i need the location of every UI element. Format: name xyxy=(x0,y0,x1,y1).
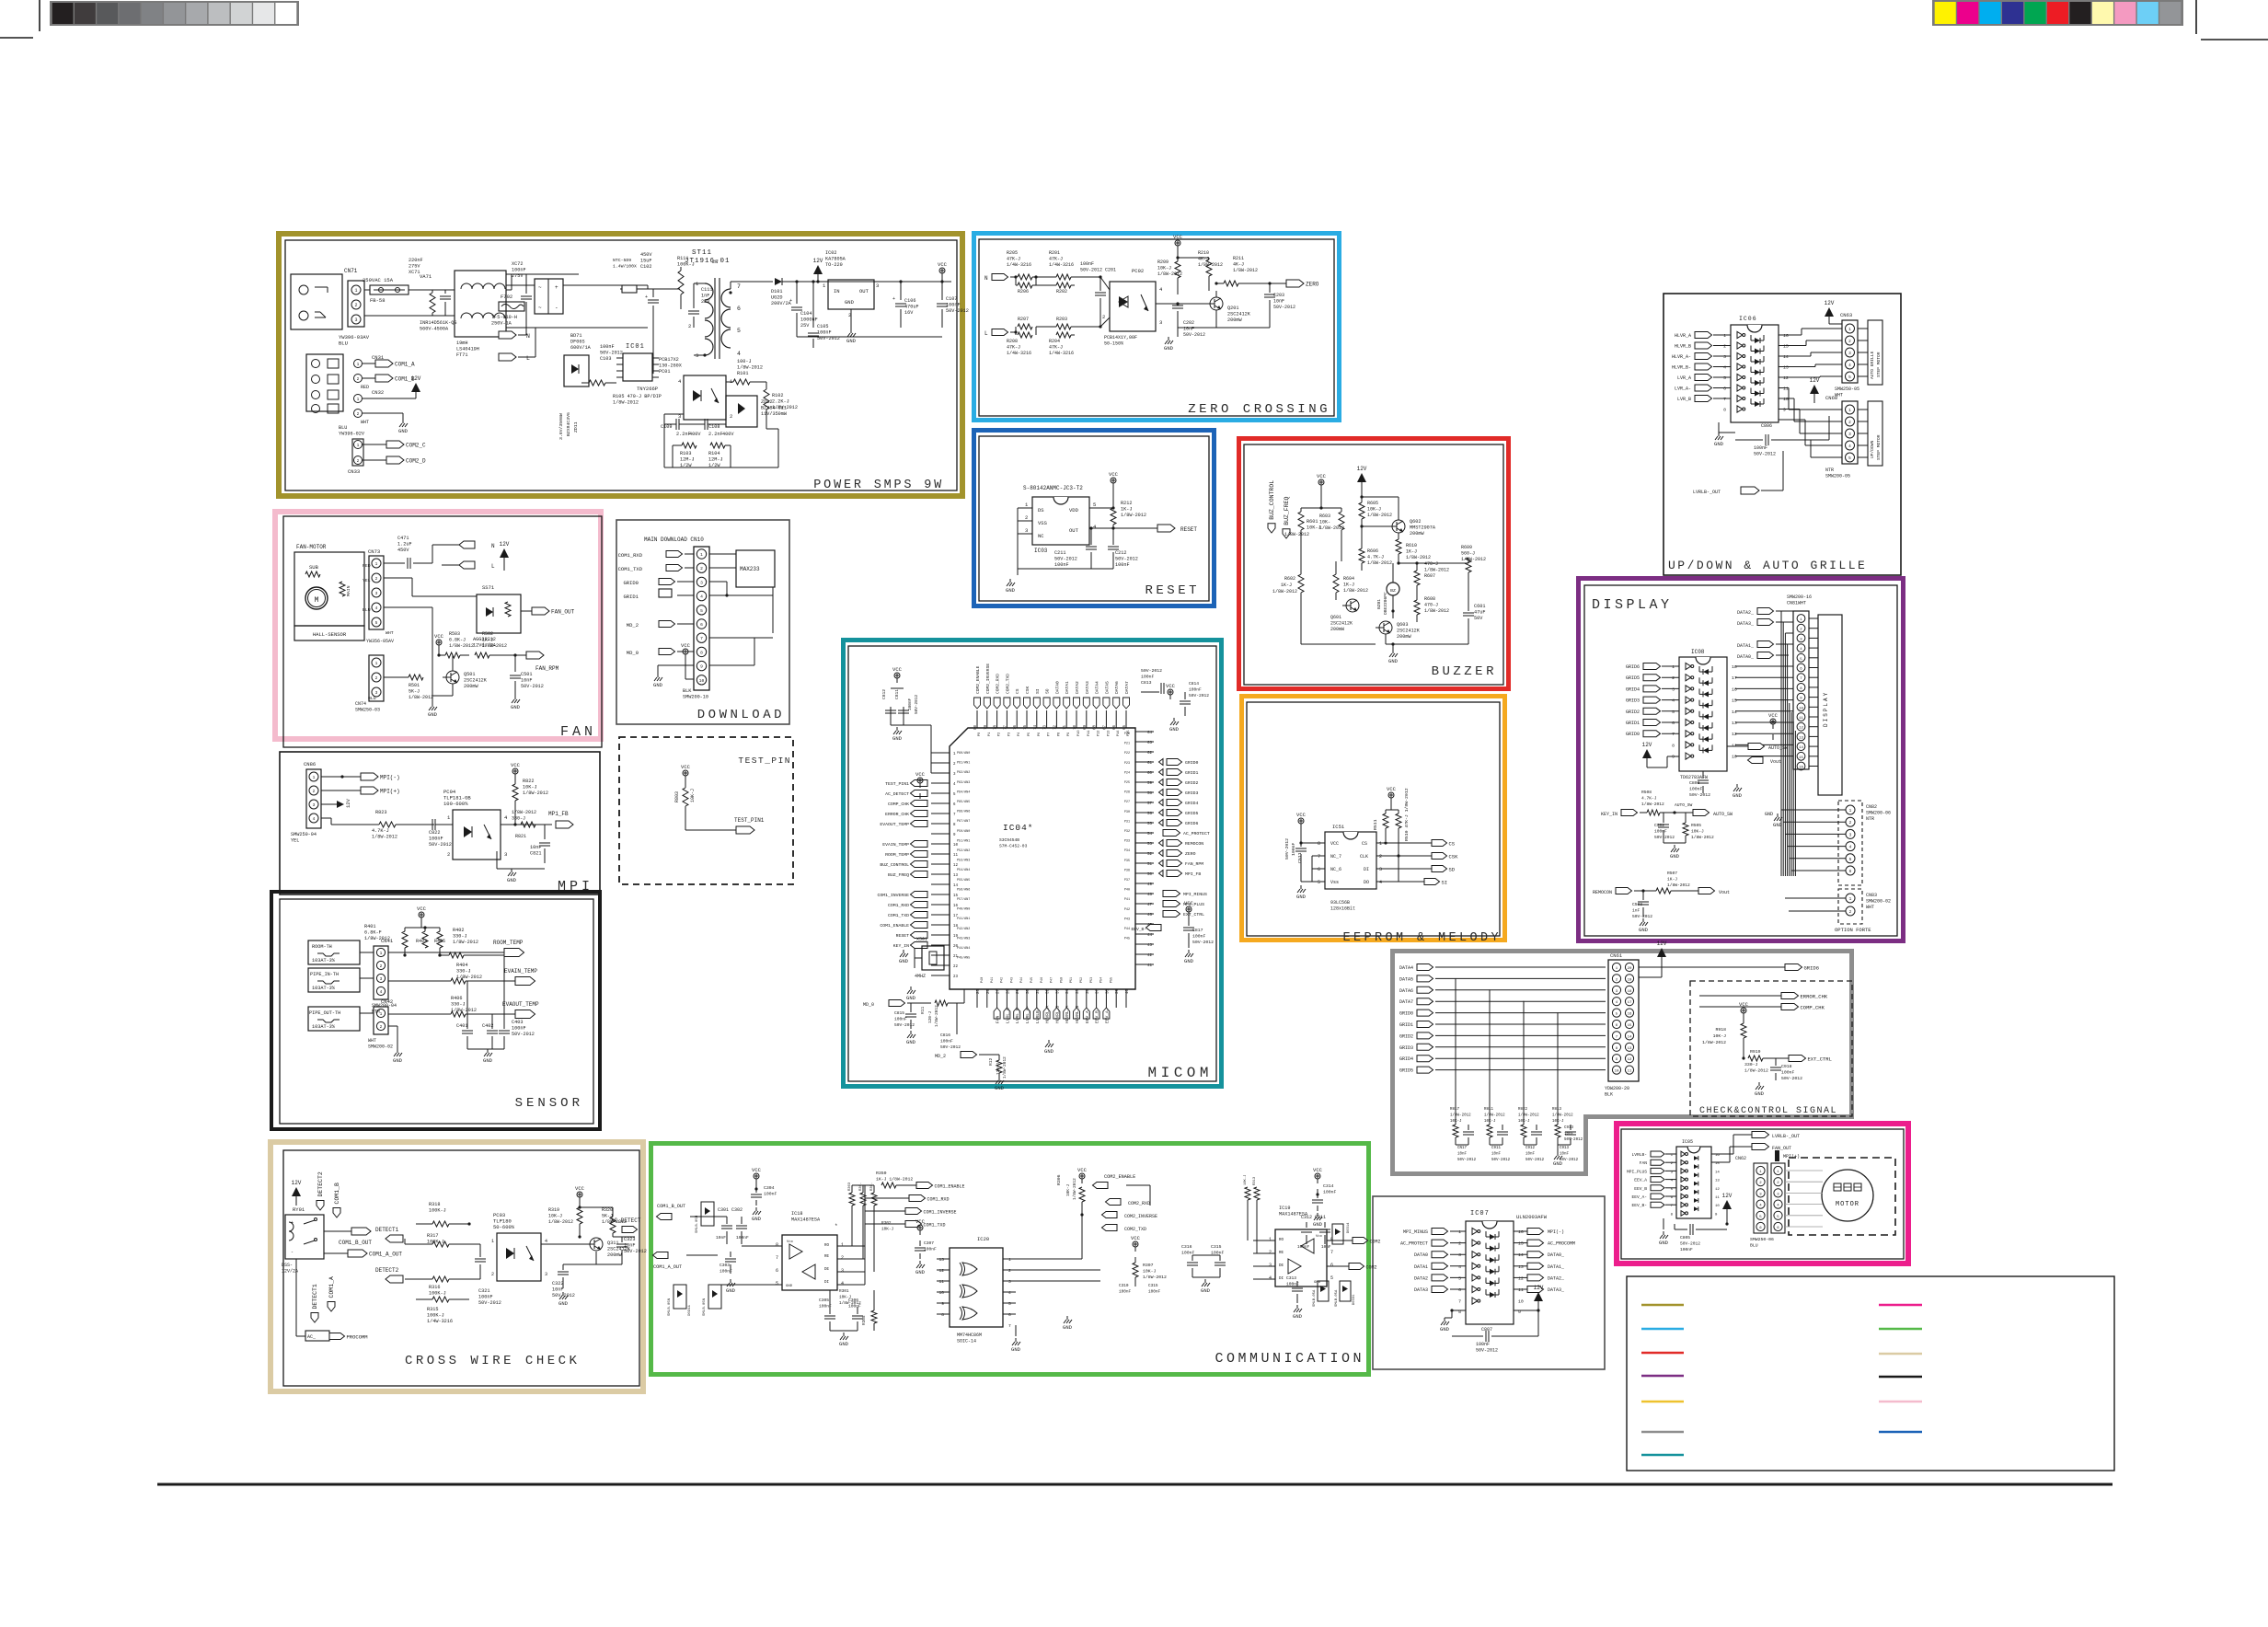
svg-text:19mH: 19mH xyxy=(456,340,467,346)
svg-text:COM2_ENABLE: COM2_ENABLE xyxy=(1104,1174,1135,1180)
wire eeprom clk xyxy=(1376,855,1432,857)
svg-text:C316: C316 xyxy=(1181,1244,1192,1250)
svg-text:HLVRL_B: HLVRL_B xyxy=(1054,1005,1060,1023)
svg-text:VCC: VCC xyxy=(1317,473,1327,479)
svg-text:P50: P50 xyxy=(1060,977,1064,983)
svg-text:EEV_B: EEV_B xyxy=(1634,1186,1647,1192)
svg-text:MAX233: MAX233 xyxy=(740,566,760,572)
svg-text:Q201: Q201 xyxy=(1227,306,1238,311)
svg-text:HLVR_B: HLVR_B xyxy=(1675,344,1691,350)
svg-text:DATA0_: DATA0_ xyxy=(1737,654,1755,660)
svg-text:100nF: 100nF xyxy=(908,698,913,710)
resistors R303 R304 pullups xyxy=(849,1193,855,1206)
svg-text:RY01: RY01 xyxy=(293,1206,305,1213)
svg-text:P63/AN3: P63/AN3 xyxy=(957,780,970,785)
svg-text:R320: R320 xyxy=(602,1207,613,1213)
svg-text:M: M xyxy=(315,596,319,605)
svg-text:12: 12 xyxy=(1732,732,1737,737)
svg-text:SMW200-16: SMW200-16 xyxy=(1787,594,1812,600)
svg-text:GND: GND xyxy=(558,1300,569,1307)
svg-text:CN83: CN83 xyxy=(1866,893,1877,898)
svg-text:CN82: CN82 xyxy=(1866,804,1877,810)
svg-text:DATA3: DATA3 xyxy=(1085,681,1090,694)
svg-text:3: 3 xyxy=(1025,527,1028,534)
svg-text:1/8W-2012: 1/8W-2012 xyxy=(1424,608,1449,614)
svg-text:GND: GND xyxy=(915,1269,926,1275)
section frame DOWNLOAD xyxy=(616,520,789,724)
svg-text:DATA2_: DATA2_ xyxy=(1737,610,1755,616)
svg-text:50V-2012: 50V-2012 xyxy=(915,695,919,714)
svg-text:*: * xyxy=(835,1223,838,1229)
MICOM top pins xyxy=(976,710,978,728)
svg-text:2: 2 xyxy=(357,411,360,417)
svg-text:50V-2012: 50V-2012 xyxy=(1476,1348,1498,1354)
svg-text:73: 73 xyxy=(1044,725,1048,731)
svg-text:1/8W-2012: 1/8W-2012 xyxy=(1003,1056,1007,1079)
svg-text:10nF: 10nF xyxy=(1457,1153,1468,1157)
VCC comm1 xyxy=(755,1179,757,1183)
svg-text:250VAC 15A: 250VAC 15A xyxy=(363,277,394,283)
svg-text:LVRLB-: LVRLB- xyxy=(1035,1008,1041,1023)
transistor Q201 xyxy=(1210,297,1223,310)
svg-text:+: + xyxy=(291,1220,294,1226)
resistor R104 xyxy=(710,443,725,448)
svg-text:DATA5: DATA5 xyxy=(1104,681,1110,694)
svg-text:MD_0: MD_0 xyxy=(627,650,639,656)
svg-text:GRID1: GRID1 xyxy=(1626,721,1640,726)
svg-text:GND: GND xyxy=(1169,726,1180,733)
svg-text:13: 13 xyxy=(953,874,959,878)
svg-text:COM1_TXD: COM1_TXD xyxy=(618,566,643,572)
flag COM1_A_OUT comm xyxy=(653,1252,669,1259)
connector CN82 xyxy=(1838,801,1862,885)
svg-text:10nF: 10nF xyxy=(1273,299,1284,305)
svg-text:11V/350mW: 11V/350mW xyxy=(761,411,788,417)
svg-text:1/8W-2012: 1/8W-2012 xyxy=(409,695,433,700)
svg-text:P53: P53 xyxy=(1090,977,1094,983)
svg-text:1/4W-3216: 1/4W-3216 xyxy=(1007,262,1031,268)
svg-text:4: 4 xyxy=(700,594,703,600)
svg-text:5: 5 xyxy=(1848,375,1851,380)
flag EEV_B- micom xyxy=(1146,925,1162,931)
svg-text:2: 2 xyxy=(375,576,378,582)
svg-text:R303: R303 xyxy=(848,1182,852,1191)
svg-text:P22: P22 xyxy=(1124,752,1130,756)
svg-text:S7M-C452-03: S7M-C452-03 xyxy=(999,844,1028,849)
svg-text:GRID1: GRID1 xyxy=(623,594,639,600)
svg-text:1: 1 xyxy=(700,552,703,558)
svg-text:IC02: IC02 xyxy=(825,250,836,256)
svg-text:LVR_A: LVR_A xyxy=(1677,375,1691,381)
ground eeprom xyxy=(1300,876,1302,882)
svg-text:47K-J: 47K-J xyxy=(1049,257,1063,262)
svg-text:15: 15 xyxy=(1783,344,1789,350)
svg-text:C805: C805 xyxy=(1680,1235,1690,1240)
svg-text:2: 2 xyxy=(1723,344,1726,350)
svg-text:78: 78 xyxy=(995,725,998,731)
svg-text:R104: R104 xyxy=(708,451,720,456)
svg-text:PROCOMM: PROCOMM xyxy=(347,1333,368,1340)
svg-text:LS40419H: LS40419H xyxy=(456,347,479,352)
svg-text:3: 3 xyxy=(1458,1252,1461,1258)
svg-text:DI: DI xyxy=(1364,867,1369,872)
svg-text:50-600%: 50-600% xyxy=(493,1224,515,1230)
flag N xyxy=(525,328,527,335)
zener ZD12 xyxy=(726,396,757,427)
svg-text:P52: P52 xyxy=(1080,977,1084,983)
svg-text:3: 3 xyxy=(1848,352,1851,356)
svg-text:12V: 12V xyxy=(1642,742,1652,748)
svg-text:P41/AN1: P41/AN1 xyxy=(957,917,970,921)
svg-text:VCC: VCC xyxy=(1768,712,1779,719)
svg-text:10K-J: 10K-J xyxy=(1367,507,1381,513)
wires rc to bus xyxy=(1455,978,1456,1125)
svg-text:10K-J: 10K-J xyxy=(690,789,696,802)
svg-text:COM2_INVERSE: COM2_INVERSE xyxy=(1124,1214,1157,1219)
flag COM2 right1 xyxy=(1353,1238,1368,1244)
flag ZERO xyxy=(1286,280,1304,287)
svg-text:R602: R602 xyxy=(1284,576,1295,582)
svg-text:250V-1A: 250V-1A xyxy=(491,321,512,327)
svg-text:C471: C471 xyxy=(397,536,409,541)
svg-text:STEP MOTOR: STEP MOTOR xyxy=(1876,434,1882,460)
svg-text:33: 33 xyxy=(1056,988,1060,994)
power 12V cross xyxy=(292,1187,301,1196)
svg-text:P45: P45 xyxy=(1030,977,1034,983)
svg-text:10K-: 10K- xyxy=(1319,520,1330,525)
svg-text:10K-J: 10K-J xyxy=(1713,1033,1727,1039)
svg-text:17: 17 xyxy=(1732,675,1737,681)
svg-text:AC_DETECT: AC_DETECT xyxy=(885,791,909,797)
svg-text:2: 2 xyxy=(1458,1241,1461,1247)
svg-text:COM1_INVERSE: COM1_INVERSE xyxy=(924,1209,957,1215)
svg-text:BZ01: BZ01 xyxy=(1376,599,1382,609)
dashed check area xyxy=(1690,981,1852,1116)
svg-text:2: 2 xyxy=(1008,1268,1011,1274)
svg-text:CN71: CN71 xyxy=(344,268,358,274)
svg-text:GND: GND xyxy=(726,1287,736,1294)
svg-text:100nF: 100nF xyxy=(1654,829,1667,835)
svg-text:1: 1 xyxy=(1379,841,1382,847)
flag COM1_A v xyxy=(328,1302,335,1312)
svg-text:15: 15 xyxy=(953,894,959,898)
svg-text:16: 16 xyxy=(1732,687,1737,692)
svg-text:P25: P25 xyxy=(1124,781,1130,785)
svg-text:12V: 12V xyxy=(345,798,351,808)
svg-text:8: 8 xyxy=(1672,743,1675,748)
flag COM1_B_OUT comm xyxy=(657,1214,673,1220)
svg-text:50V-2012: 50V-2012 xyxy=(1457,1159,1477,1162)
flag COM2_D xyxy=(363,459,386,461)
svg-text:BUZZER: BUZZER xyxy=(1432,664,1497,679)
svg-text:P26: P26 xyxy=(1124,791,1130,795)
svg-text:CROSS WIRE CHECK: CROSS WIRE CHECK xyxy=(405,1354,580,1368)
svg-text:GRID6: GRID6 xyxy=(1626,664,1640,670)
flag AUTO_SW disp xyxy=(1748,744,1765,750)
svg-text:330-J: 330-J xyxy=(512,816,525,822)
svg-text:63: 63 xyxy=(1147,742,1153,745)
corner mark top-left horizontal xyxy=(0,37,33,39)
svg-text:DSS-: DSS- xyxy=(282,1263,293,1268)
wire comm bus1 xyxy=(864,1185,866,1229)
svg-text:68: 68 xyxy=(1094,725,1098,731)
svg-text:10nF: 10nF xyxy=(521,678,532,684)
svg-text:C401: C401 xyxy=(456,1023,467,1029)
section frame MOTOR xyxy=(1617,1124,1908,1264)
svg-text:ZERO CROSSING: ZERO CROSSING xyxy=(1188,402,1330,417)
svg-text:GND: GND xyxy=(1553,1160,1563,1167)
svg-text:128x16Bit: 128x16Bit xyxy=(1330,906,1355,912)
svg-text:C323: C323 xyxy=(624,1237,635,1242)
svg-text:GRID4: GRID4 xyxy=(1626,687,1640,692)
svg-text:1: 1 xyxy=(357,397,360,402)
svg-text:6: 6 xyxy=(737,306,741,312)
svg-text:400V: 400V xyxy=(689,432,701,437)
svg-text:1: 1 xyxy=(375,561,378,567)
svg-text:AUTO_SW: AUTO_SW xyxy=(1768,745,1788,751)
ic07 right flags xyxy=(1514,1230,1527,1232)
svg-text:1/4W-3216: 1/4W-3216 xyxy=(427,1319,453,1324)
power 12V checkctl xyxy=(1657,948,1666,957)
svg-text:1/8W-2012: 1/8W-2012 xyxy=(482,643,507,649)
svg-text:12V: 12V xyxy=(500,541,510,548)
svg-text:P43: P43 xyxy=(1010,977,1014,983)
svg-text:1/8W-2012: 1/8W-2012 xyxy=(1121,513,1146,518)
flag MPI minus xyxy=(321,776,342,778)
svg-text:1: 1 xyxy=(1848,409,1851,413)
connector CN60 xyxy=(1842,401,1858,464)
svg-text:P67/AN7: P67/AN7 xyxy=(957,819,970,824)
ground R12 xyxy=(998,1077,1000,1080)
svg-text:1/8W-2012: 1/8W-2012 xyxy=(1343,588,1368,594)
ground fan1 xyxy=(432,699,433,703)
flag EVAIN_TEMP xyxy=(515,977,535,986)
svg-text:NTR: NTR xyxy=(1825,467,1834,473)
svg-text:1/8W-2012: 1/8W-2012 xyxy=(1702,1040,1726,1045)
ground C313 xyxy=(1296,1305,1298,1309)
svg-text:6.8K-F: 6.8K-F xyxy=(364,930,382,936)
resistor R501 xyxy=(384,676,409,678)
svg-text:12: 12 xyxy=(953,864,959,868)
svg-text:11: 11 xyxy=(1518,1287,1524,1293)
svg-text:SMW250-03: SMW250-03 xyxy=(355,708,380,713)
svg-text:HLVR_A: HLVR_A xyxy=(1675,333,1691,339)
svg-text:GRID2: GRID2 xyxy=(1185,780,1199,786)
svg-text:N: N xyxy=(526,333,530,340)
svg-text:GND: GND xyxy=(1714,441,1724,447)
svg-text:R305: R305 xyxy=(862,1315,867,1325)
svg-text:SS71: SS71 xyxy=(482,584,495,591)
svg-text:SMLB.05N: SMLB.05N xyxy=(696,1215,699,1233)
svg-text:IC07: IC07 xyxy=(1470,1210,1490,1217)
svg-text:EVAOUT_TEMP: EVAOUT_TEMP xyxy=(880,822,909,827)
svg-text:470uF: 470uF xyxy=(904,305,919,310)
svg-text:VCC: VCC xyxy=(938,261,948,268)
zener ZD11 xyxy=(564,355,589,387)
svg-text:~: ~ xyxy=(538,284,542,291)
svg-text:RESET: RESET xyxy=(1145,583,1200,598)
svg-text:100nF: 100nF xyxy=(512,1026,526,1032)
connector CN31 CN32 block xyxy=(306,354,343,411)
svg-text:100nF: 100nF xyxy=(1192,934,1206,940)
svg-text:27: 27 xyxy=(997,988,1001,994)
svg-text:R30-: R30- xyxy=(870,1183,874,1191)
svg-text:YW356-05AV: YW356-05AV xyxy=(366,639,394,644)
svg-text:MAX1487ESA: MAX1487ESA xyxy=(791,1217,821,1223)
svg-text:TEST_PIN1: TEST_PIN1 xyxy=(885,781,909,787)
wire DC bus xyxy=(563,284,648,286)
svg-text:VCC: VCC xyxy=(417,906,427,912)
svg-text:OBE2206PC: OBE2206PC xyxy=(1383,592,1388,615)
wire comm mid bus xyxy=(1016,1258,1082,1260)
svg-text:7: 7 xyxy=(1672,732,1675,737)
svg-text:R316: R316 xyxy=(429,1285,440,1290)
section frame SENSOR xyxy=(271,892,600,1129)
ground comm misc xyxy=(1066,1316,1068,1320)
svg-text:P3: P3 xyxy=(1007,733,1011,736)
flag COM1_B v xyxy=(333,1208,340,1218)
svg-text:EXT_CTRL: EXT_CTRL xyxy=(1183,912,1204,917)
svg-text:P35: P35 xyxy=(1124,860,1130,863)
legend line blue xyxy=(1879,1431,1922,1434)
IC IC04 body xyxy=(950,728,1135,989)
svg-text:DATA0: DATA0 xyxy=(1054,681,1060,694)
svg-text:50V-2012: 50V-2012 xyxy=(1115,557,1138,562)
svg-text:P42: P42 xyxy=(1001,977,1005,983)
svg-text:VCC: VCC xyxy=(1184,900,1194,906)
svg-text:3: 3 xyxy=(380,976,383,982)
hall sensor xyxy=(294,626,364,640)
svg-text:P50/AN0: P50/AN0 xyxy=(957,829,970,834)
svg-text:100nF: 100nF xyxy=(736,1235,749,1240)
wire room temp xyxy=(388,952,504,953)
svg-text:13: 13 xyxy=(1628,1047,1632,1051)
svg-text:12: 12 xyxy=(1783,375,1789,381)
svg-text:VCC: VCC xyxy=(681,642,691,649)
ground C305 xyxy=(830,1330,858,1332)
svg-text:10nF: 10nF xyxy=(716,1235,726,1240)
svg-text:GND: GND xyxy=(1313,1221,1323,1228)
svg-text:4K-J: 4K-J xyxy=(1233,262,1244,268)
svg-text:WHT: WHT xyxy=(386,630,394,636)
svg-text:1/8W-2012: 1/8W-2012 xyxy=(935,1005,939,1027)
svg-text:HLVRL_A: HLVRL_A xyxy=(1065,1005,1070,1023)
svg-text:2.2K-J: 2.2K-J xyxy=(772,399,789,405)
svg-text:VCC: VCC xyxy=(1330,841,1339,847)
VCC comm3 xyxy=(1317,1179,1318,1183)
svg-text:100nF: 100nF xyxy=(940,1039,953,1044)
svg-text:10K-J: 10K-J xyxy=(1691,829,1704,835)
power 12V ic07 xyxy=(1534,1292,1543,1301)
power 12V CN63 xyxy=(1825,307,1834,317)
svg-text:GND: GND xyxy=(846,338,857,344)
svg-text:50V-2012 C201: 50V-2012 C201 xyxy=(1080,268,1116,273)
flag AC_PROCOMM xyxy=(295,1259,297,1336)
svg-text:HLVRL_A: HLVRL_A xyxy=(1045,1005,1051,1023)
svg-text:54: 54 xyxy=(1147,833,1153,837)
svg-text:10K-J: 10K-J xyxy=(1244,1175,1248,1185)
wire display to CN82 xyxy=(1781,809,1846,811)
svg-text:STEP MOTOR: STEP MOTOR xyxy=(1876,352,1882,377)
svg-text:DE: DE xyxy=(824,1268,830,1272)
svg-text:PC02: PC02 xyxy=(1132,268,1144,274)
corner mark top-right vertical xyxy=(2195,0,2197,34)
svg-text:COMP_CHK: COMP_CHK xyxy=(888,802,909,807)
svg-text:200mW: 200mW xyxy=(607,1252,622,1258)
svg-text:C815: C815 xyxy=(894,1010,904,1016)
ground comm1 xyxy=(730,1279,731,1283)
svg-text:400V: 400V xyxy=(722,432,734,437)
flag MD_2 micom xyxy=(961,1052,977,1058)
ground mpi xyxy=(496,851,498,869)
svg-text:CN42: CN42 xyxy=(381,998,393,1005)
svg-text:50V-2012: 50V-2012 xyxy=(1183,332,1205,338)
svg-text:1/8W-2012: 1/8W-2012 xyxy=(548,1219,573,1225)
svg-text:1K-J: 1K-J xyxy=(482,638,493,643)
svg-text:DATA4: DATA4 xyxy=(1399,965,1413,971)
connector AC input plug xyxy=(291,258,579,358)
svg-text:R201: R201 xyxy=(1049,250,1060,256)
svg-text:D101: D101 xyxy=(771,289,782,294)
svg-text:CN32: CN32 xyxy=(372,389,384,396)
svg-text:R604: R604 xyxy=(1343,576,1354,582)
svg-text:IC05: IC05 xyxy=(1682,1139,1693,1145)
svg-text:AC_PROTECT: AC_PROTECT xyxy=(1183,831,1210,837)
flag Vout2 xyxy=(1698,888,1715,894)
svg-text:P41: P41 xyxy=(1124,898,1130,902)
svg-text:TNY266P: TNY266P xyxy=(637,386,658,392)
svg-text:GRID2: GRID2 xyxy=(1399,1033,1413,1039)
svg-text:42: 42 xyxy=(1147,954,1153,958)
svg-text:100nF: 100nF xyxy=(1080,261,1094,267)
svg-text:L: L xyxy=(526,355,530,362)
svg-text:16V: 16V xyxy=(904,310,914,316)
svg-text:100nF: 100nF xyxy=(1054,562,1069,568)
svg-text:P64/AN4: P64/AN4 xyxy=(957,790,970,794)
svg-text:POWER SMPS 9W: POWER SMPS 9W xyxy=(813,479,944,492)
svg-text:Q311: Q311 xyxy=(607,1240,618,1246)
svg-text:10K-J: 10K-J xyxy=(1157,266,1171,271)
svg-text:50V: 50V xyxy=(1474,616,1483,621)
svg-text:L: L xyxy=(491,563,495,570)
svg-text:16: 16 xyxy=(1783,333,1789,339)
svg-text:60: 60 xyxy=(1147,772,1153,776)
svg-text:AC_PROTECT: AC_PROTECT xyxy=(1400,1241,1428,1247)
svg-text:DI: DI xyxy=(824,1281,830,1285)
svg-text:PCB17X2: PCB17X2 xyxy=(659,357,679,363)
svg-text:1/8W-2012: 1/8W-2012 xyxy=(1518,1114,1539,1118)
svg-text:50V-2012: 50V-2012 xyxy=(946,308,969,314)
svg-text:11: 11 xyxy=(1628,1070,1632,1074)
svg-text:9: 9 xyxy=(1783,408,1786,413)
capacitor C918 xyxy=(1775,1058,1777,1066)
svg-text:2: 2 xyxy=(313,789,316,794)
svg-text:10: 10 xyxy=(1799,707,1803,710)
flag COM2_TXD xyxy=(1102,1225,1118,1231)
svg-text:10nF: 10nF xyxy=(1560,1153,1570,1157)
svg-text:2SC2412K: 2SC2412K xyxy=(1227,312,1251,317)
svg-text:CN61: CN61 xyxy=(1610,952,1623,959)
flag MD_0 xyxy=(659,649,675,655)
svg-text:C813: C813 xyxy=(1141,680,1152,686)
svg-text:R208: R208 xyxy=(1007,339,1018,344)
svg-text:11: 11 xyxy=(1732,743,1737,748)
svg-text:3: 3 xyxy=(1848,433,1851,437)
svg-text:ULN2003AFW: ULN2003AFW xyxy=(1516,1214,1548,1220)
VCC test pin xyxy=(685,776,686,780)
svg-text:1/8W-2012: 1/8W-2012 xyxy=(1641,802,1664,807)
VCC terminal xyxy=(941,273,943,278)
